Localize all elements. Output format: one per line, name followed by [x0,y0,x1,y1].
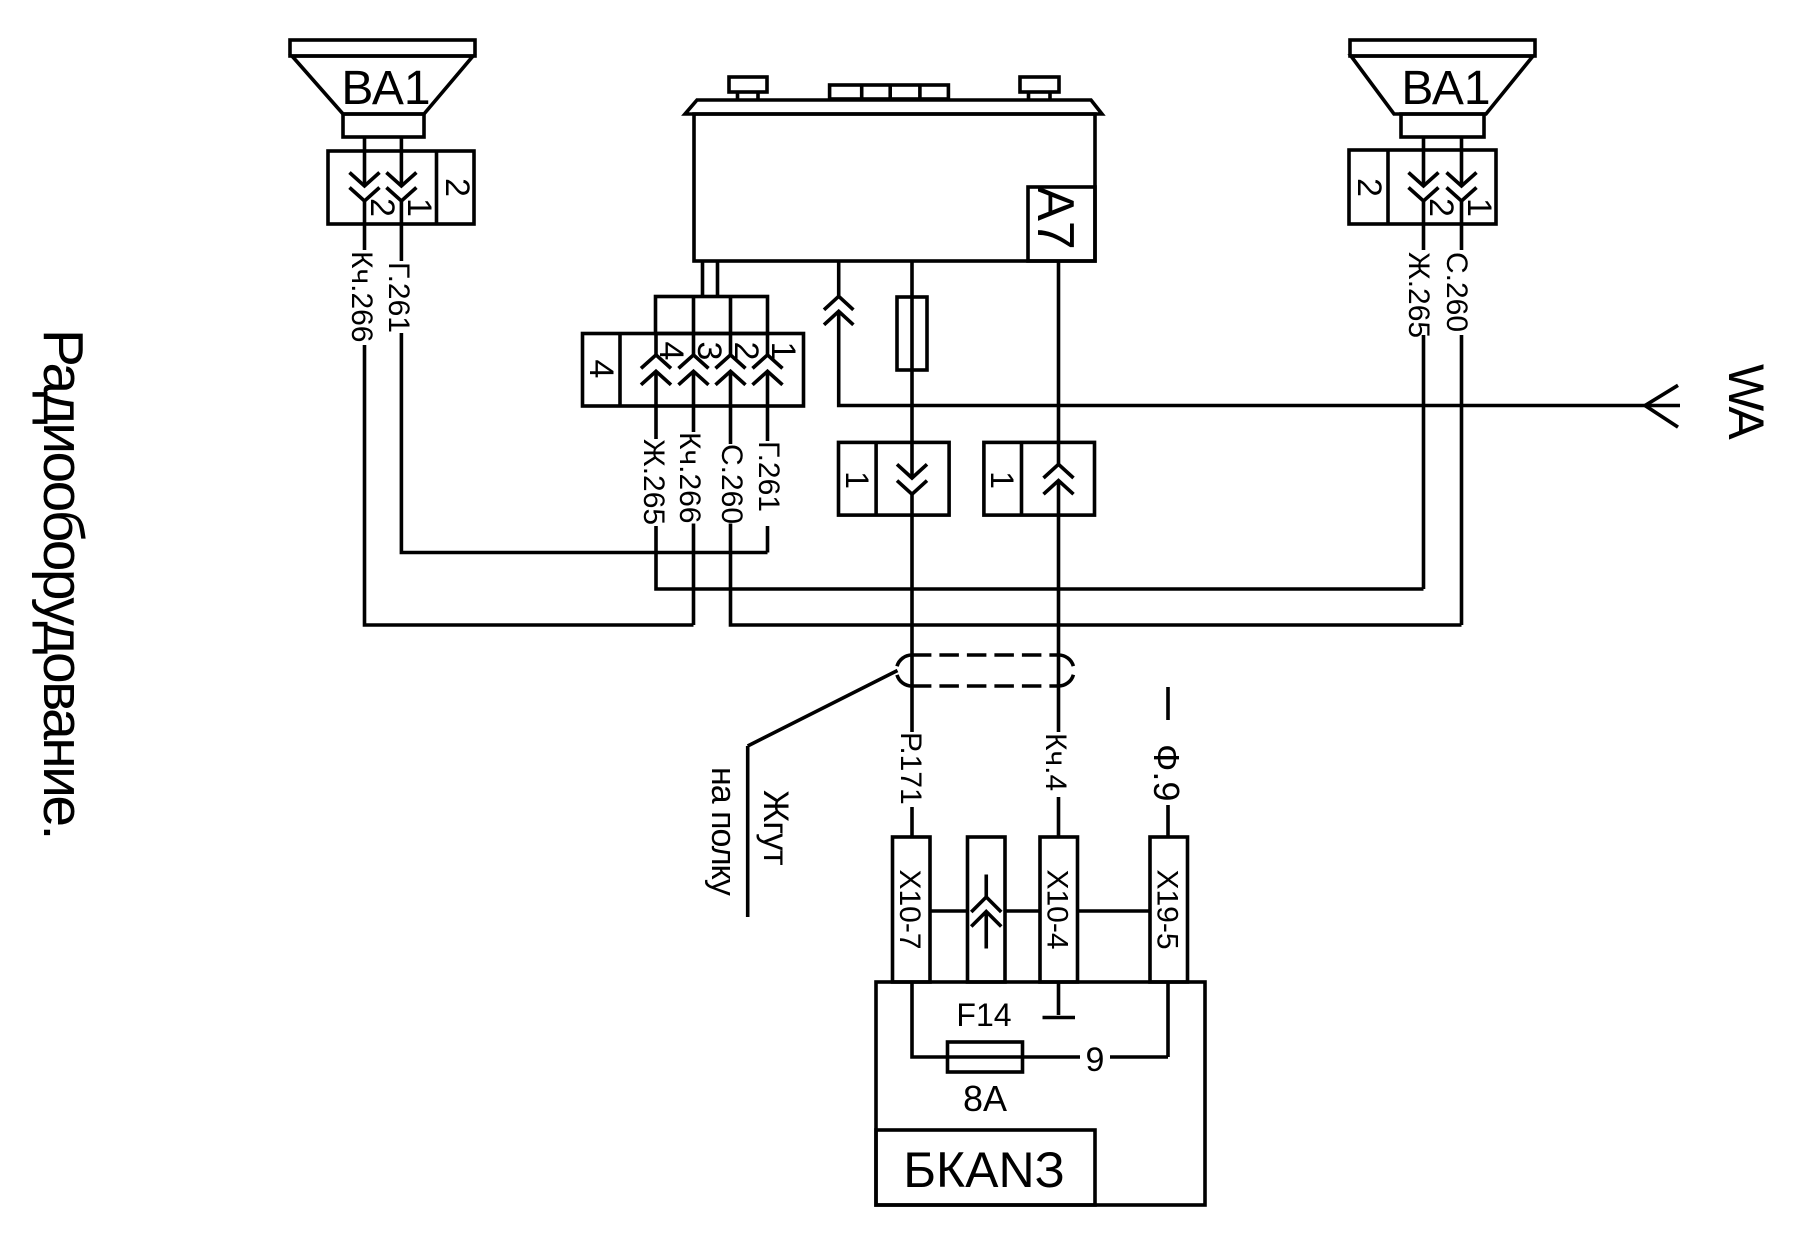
connector 1-pin right [984,442,1095,515]
connector 4-pin block [582,334,804,407]
wire P.171 to pin [910,807,914,837]
wire speaker right pin1 lead [1460,137,1464,150]
pin X10-4 [1040,837,1078,982]
svg-text:на полку: на полку [704,767,742,896]
svg-text:Ж.265: Ж.265 [1402,252,1435,338]
wire pin1 down [766,526,770,553]
wire Ф.9 stub [1166,687,1170,720]
pin 2 of connector [716,334,766,445]
block BKAN3 [876,982,1205,1205]
svg-text:2: 2 [363,198,401,217]
wire speaker right pin2 lead [1422,137,1426,150]
wire pin3 down [692,524,696,626]
wire Ж.265 to node [1422,335,1426,589]
wire Ф.9 to pin [1166,805,1170,837]
svg-text:1: 1 [764,342,802,361]
pin 1 of connector [753,334,803,442]
svg-text:Г.261: Г.261 [752,441,785,512]
svg-text:1: 1 [1460,198,1498,217]
pin X10-7 [893,837,931,982]
ground inside block [1043,982,1076,1018]
svg-text:Г.261: Г.261 [382,262,415,333]
wire Кч.4 to pin [1057,797,1061,837]
svg-text:Радиооборудование.: Радиооборудование. [31,329,95,838]
wire Кч.4 down [1057,481,1061,732]
svg-text:ВА1: ВА1 [341,62,430,115]
svg-text:Ж.265: Ж.265 [637,439,670,525]
svg-text:1: 1 [984,471,1020,489]
svg-text:Жгут: Жгут [756,790,795,866]
harness marker dashed [896,655,1074,686]
label box БКАНЗ [876,1130,1095,1205]
connector housing above 4-pin [656,297,768,334]
svg-text:1: 1 [400,198,438,217]
svg-text:ВА1: ВА1 [1401,62,1490,115]
antenna WA symbol [1645,364,1774,440]
svg-text:9: 9 [1086,1041,1105,1079]
svg-text:8А: 8А [963,1078,1007,1119]
svg-text:2: 2 [727,342,765,361]
pin 2 left speaker [350,151,402,250]
pin X19-5 [1150,837,1188,982]
svg-text:Р.171: Р.171 [894,732,927,805]
radio unit A7 [685,77,1102,261]
wire pin links [930,909,1150,913]
wire P.171 down [910,494,914,732]
svg-text:А7: А7 [1026,186,1084,250]
label box A7 [1026,186,1095,261]
svg-text:С.260: С.260 [1440,252,1473,332]
pin 4 of connector [641,334,690,440]
pin chevrons up right 1-pin [1044,464,1074,494]
pin 1 left speaker [386,151,438,261]
wire Кч.266 to node [365,345,694,625]
svg-text:F14: F14 [956,997,1011,1033]
wire Г.261 to node [401,333,767,553]
pin 3 of connector [679,334,729,433]
svg-text:4: 4 [652,342,690,361]
wire pin2 to right speaker [731,524,1462,626]
svg-text:Х10-4: Х10-4 [1041,869,1074,949]
svg-text:WA: WA [1718,364,1774,440]
connector 1-pin left [839,442,950,515]
wire speaker left pin2 lead [363,137,367,151]
speaker BA1 left [290,40,475,137]
svg-text:БКАNЗ: БКАNЗ [903,1142,1065,1198]
pin arrow block [968,837,1006,982]
wire speaker left pin1 lead [400,137,404,151]
connector X left speaker [328,151,476,224]
svg-text:Ф.9: Ф.9 [1146,744,1187,801]
connector X right speaker [1349,150,1496,224]
svg-text:Х19-5: Х19-5 [1151,869,1184,949]
svg-text:4: 4 [582,360,620,379]
fuse F14 [912,982,1168,1072]
speaker BA1 right [1350,40,1535,137]
wire antenna with chevrons [824,261,1680,406]
pin chevrons down left 1-pin [897,464,927,494]
svg-text:2: 2 [1422,198,1460,217]
svg-text:Кч.266: Кч.266 [345,251,378,343]
svg-text:3: 3 [690,342,728,361]
wire pin4 to right speaker [656,526,1424,589]
pin 1 right speaker [1447,150,1499,250]
fuse on radio supply [897,261,927,478]
svg-text:Кч.266: Кч.266 [673,432,706,524]
pin 2 right speaker [1409,150,1461,250]
svg-text:С.260: С.260 [715,444,748,524]
svg-text:Х10-7: Х10-7 [893,869,926,949]
svg-text:2: 2 [1350,178,1388,197]
leader line Жгут на полку [748,671,898,918]
svg-text:Кч.4: Кч.4 [1039,733,1072,791]
svg-text:2: 2 [438,178,476,197]
wire radio stubs to connector housing [703,261,718,297]
svg-text:1: 1 [839,471,875,489]
wire С.260 to node [1460,335,1464,625]
wire A7 down [1057,261,1061,464]
